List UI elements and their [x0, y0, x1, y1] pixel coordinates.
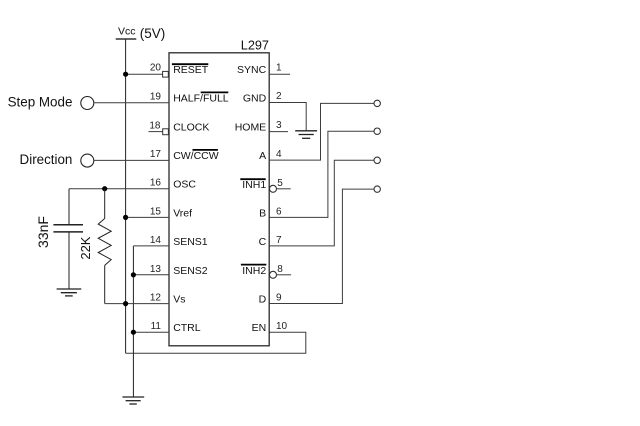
wire pin 13 SENS2 — [133, 274, 169, 276]
wire pin 19 Step Mode — [94, 102, 169, 104]
wire pin 17 Direction — [94, 159, 169, 161]
wire Vcc vertical rail — [125, 40, 127, 354]
svg-text:22K: 22K — [78, 236, 93, 259]
pin 18 square marker — [163, 129, 169, 135]
node rail-CTRL junction — [131, 330, 136, 335]
svg-text:9: 9 — [276, 293, 282, 304]
resistor R1 22K — [98, 189, 111, 304]
pin label INH2 — [241, 265, 266, 277]
node OSC-R junction — [102, 186, 107, 191]
svg-text:RESET: RESET — [173, 64, 209, 76]
svg-text:L297: L297 — [241, 39, 269, 53]
svg-text:EN: EN — [252, 322, 267, 334]
wire pin 4 phase A — [269, 103, 374, 160]
ground bottom rail — [122, 397, 144, 404]
svg-text:GND: GND — [243, 93, 267, 105]
node Vcc-Vref junction — [123, 215, 128, 220]
connector Step Mode — [8, 95, 94, 110]
svg-text:3: 3 — [276, 120, 282, 131]
pin 18 stub — [149, 131, 163, 133]
svg-text:Direction: Direction — [20, 152, 73, 167]
pin label RESET — [172, 64, 209, 76]
wire pin 14 SENS1 — [133, 245, 169, 247]
svg-text:19: 19 — [150, 92, 162, 103]
svg-text:17: 17 — [150, 149, 162, 160]
svg-text:SENS1: SENS1 — [173, 236, 208, 248]
svg-text:13: 13 — [150, 264, 162, 275]
wire pin 6 phase B — [269, 131, 374, 217]
pin 8 stub — [277, 274, 292, 276]
pin label CW/CCW — [173, 150, 219, 162]
wire pin 12 Vs — [105, 303, 169, 305]
svg-text:HALF/FULL: HALF/FULL — [173, 93, 229, 105]
node rail-SENS2 junction — [131, 272, 136, 277]
wire EN bottom return — [126, 332, 306, 353]
svg-text:1: 1 — [276, 63, 282, 74]
svg-text:Vs: Vs — [173, 294, 185, 306]
svg-text:18: 18 — [149, 120, 161, 131]
node Vcc-pin20 junction — [123, 72, 128, 77]
wire pin 9 phase D — [269, 189, 374, 303]
svg-text:A: A — [259, 150, 266, 162]
terminal B — [374, 128, 380, 134]
svg-text:5: 5 — [277, 178, 283, 189]
pin label HALF/FULL — [173, 92, 229, 104]
pin label INH1 — [240, 179, 266, 191]
svg-text:7: 7 — [276, 235, 282, 246]
svg-text:Vcc: Vcc — [118, 25, 136, 37]
connector Direction — [20, 152, 94, 167]
svg-text:6: 6 — [276, 206, 282, 217]
svg-text:CTRL: CTRL — [173, 322, 201, 334]
wire pin 2 GND — [269, 103, 306, 131]
svg-text:CLOCK: CLOCK — [173, 122, 209, 134]
pin 3 HOME stub — [269, 131, 288, 133]
pin 1 SYNC stub — [269, 73, 290, 75]
svg-text:Vref: Vref — [173, 207, 192, 219]
wire pin 11 CTRL — [133, 331, 169, 333]
op-chip U1 L297 body — [169, 53, 269, 346]
svg-text:2: 2 — [276, 91, 282, 102]
ground at pin 2 — [295, 131, 317, 139]
svg-text:16: 16 — [150, 178, 162, 189]
wire pin 16 OSC net — [69, 188, 169, 190]
wire sense/ctrl ground rail — [132, 246, 134, 397]
pin 5 INH1 bubble — [270, 185, 277, 192]
svg-text:HOME: HOME — [235, 122, 267, 134]
svg-text:INH1: INH1 — [242, 179, 266, 191]
svg-text:SENS2: SENS2 — [173, 265, 208, 277]
svg-text:OSC: OSC — [173, 179, 196, 191]
svg-text:4: 4 — [276, 149, 282, 160]
svg-text:B: B — [259, 207, 266, 219]
svg-text:20: 20 — [150, 63, 162, 74]
svg-text:12: 12 — [150, 293, 162, 304]
svg-text:8: 8 — [277, 264, 283, 275]
wire pin 20 to Vcc — [126, 73, 163, 75]
svg-text:INH2: INH2 — [242, 265, 266, 277]
svg-text:33nF: 33nF — [35, 216, 51, 248]
svg-text:SYNC: SYNC — [237, 64, 267, 76]
svg-text:(5V): (5V) — [140, 26, 166, 41]
wire pin 15 Vref to Vcc — [126, 216, 169, 218]
svg-text:Step Mode: Step Mode — [8, 95, 73, 110]
ground under C1 — [57, 289, 82, 296]
terminal D — [374, 186, 380, 192]
svg-text:11: 11 — [151, 321, 162, 332]
svg-text:CW/CCW: CW/CCW — [173, 150, 219, 162]
pin 8 INH2 bubble — [270, 271, 277, 278]
pin 20 square marker — [163, 71, 169, 77]
terminal A — [374, 100, 380, 106]
svg-text:14: 14 — [150, 235, 162, 246]
terminal C — [374, 157, 380, 163]
pin 5 stub — [277, 188, 291, 190]
svg-text:10: 10 — [276, 321, 288, 332]
capacitor C1 33nF — [53, 189, 83, 289]
Vcc power symbol label — [116, 25, 166, 41]
svg-text:C: C — [259, 236, 267, 248]
node Vcc-Vs junction — [123, 301, 128, 306]
svg-text:15: 15 — [150, 206, 162, 217]
svg-text:D: D — [259, 294, 267, 306]
wire pin 7 phase C — [269, 160, 374, 246]
